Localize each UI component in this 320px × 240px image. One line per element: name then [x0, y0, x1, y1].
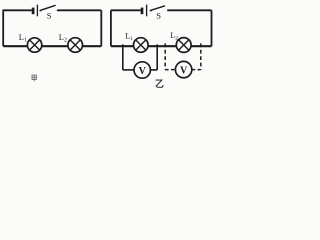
- switch S contact dot (right circuit): [150, 10, 152, 12]
- svg-text:V: V: [180, 65, 188, 76]
- wire: V2 left stub (dashed): [165, 69, 175, 71]
- switch S lever (right circuit): [151, 6, 165, 10]
- svg-text:L1: L1: [125, 32, 133, 42]
- lamp L2 (left circuit): [68, 38, 83, 53]
- battery B1 positive plate (long thin): [36, 5, 38, 17]
- lamp L1 (right circuit): [134, 38, 149, 53]
- lamp L1 (left circuit): [27, 38, 41, 52]
- wire: right side of left loop: [100, 10, 102, 46]
- switch S lever: [41, 5, 56, 10]
- switch S contact dot: [39, 10, 41, 12]
- wire: bottom rail of left loop: [3, 45, 101, 47]
- wire: top-left segment to battery: [111, 9, 141, 11]
- wire: top-left segment to battery: [3, 9, 32, 11]
- battery B2 positive plate (long thin): [146, 5, 148, 17]
- wire: voltmeter V2 left branch (dashed): [164, 43, 166, 69]
- svg-text:V: V: [139, 66, 147, 77]
- wire: left side of right loop: [110, 10, 112, 46]
- svg-text:L1: L1: [19, 32, 27, 44]
- wire: right side of right loop: [211, 10, 213, 46]
- label 乙 (drawn glyph): [156, 80, 163, 87]
- wire: V1 right stub: [150, 69, 157, 71]
- wire: left side of left loop: [2, 10, 4, 46]
- wire: main bottom rail of right loop: [111, 45, 212, 47]
- switch S right contact dot: [57, 10, 59, 12]
- wire: voltmeter V1 right branch (solid): [156, 44, 158, 70]
- svg-text:S: S: [47, 11, 52, 21]
- wire: voltmeter V1 left branch (solid): [122, 44, 124, 70]
- wire: top-right segment after switch: [58, 9, 102, 11]
- svg-text:S: S: [156, 11, 161, 21]
- wire: V2 right stub (dashed): [192, 69, 201, 71]
- voltmeter V1: [134, 62, 150, 78]
- battery B1 negative plate (short thick): [32, 8, 35, 15]
- svg-text:L2: L2: [170, 31, 178, 41]
- voltmeter V2: [175, 61, 191, 77]
- wire: voltmeter V2 right branch (dashed): [200, 43, 202, 69]
- lamp L2 (right circuit): [176, 38, 191, 53]
- label 甲 (drawn glyph): [32, 75, 36, 81]
- wire: top-right segment after switch: [167, 9, 211, 11]
- svg-text:L2: L2: [59, 32, 67, 44]
- wire: V1 left stub: [123, 69, 134, 71]
- battery B2 negative plate (short thick): [141, 8, 144, 15]
